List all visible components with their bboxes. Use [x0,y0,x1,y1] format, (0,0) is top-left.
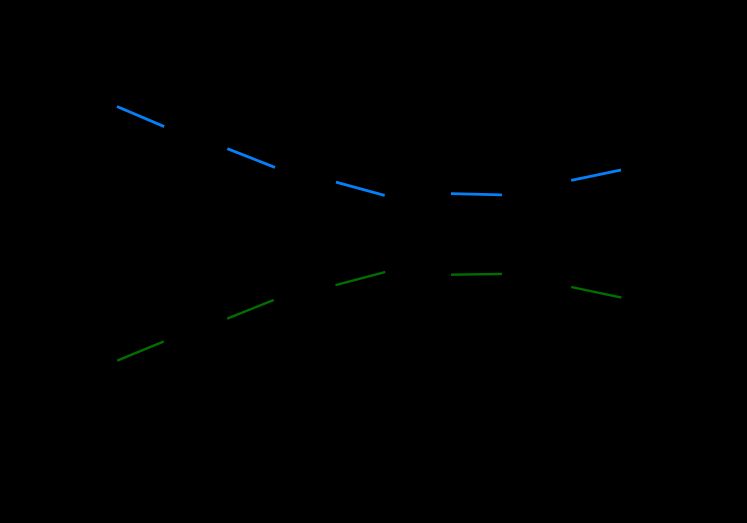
green series segment 5 [571,287,621,298]
blue series segment 4 [451,194,502,195]
green series segment 1 [117,342,164,361]
green series segment 4 [451,273,502,276]
blue series segment 1 [117,107,164,127]
blue series segment 5 [571,170,621,180]
green series segment 3 [336,272,386,285]
green series segment 2 [227,300,274,319]
blue series segment 3 [336,182,385,195]
blue series segment 2 [227,149,275,168]
